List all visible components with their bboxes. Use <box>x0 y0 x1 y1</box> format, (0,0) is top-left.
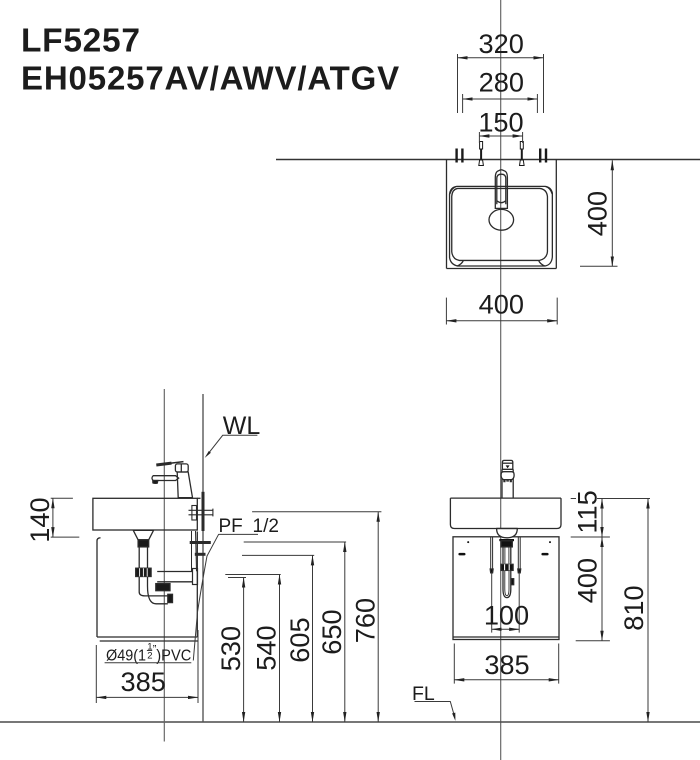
dim 530 line <box>243 578 245 722</box>
dim 115/810 top extension <box>571 498 576 500</box>
svg-text:810: 810 <box>618 585 649 630</box>
dim 140 line <box>52 498 54 537</box>
front basin <box>450 498 561 528</box>
front faucet cap V mark <box>506 465 510 468</box>
front hose left tip <box>490 569 493 573</box>
dim 100 extension left <box>491 573 493 633</box>
dim 760 extension top <box>252 511 381 513</box>
plan bowl outer rim <box>450 186 553 266</box>
plan sink outer rim left edge <box>446 160 448 269</box>
dim 605 line <box>312 555 314 721</box>
FL leader <box>415 702 455 718</box>
dim 400 plan right extension bottom <box>580 265 618 267</box>
side drain flange under basin <box>133 530 153 539</box>
side cabinet back edge <box>196 532 198 638</box>
plan bowl corner facet top-right <box>546 187 553 195</box>
front cabinet bottom inner line <box>453 636 559 638</box>
side supply pipe PF1/2 <box>189 509 214 511</box>
FL leader arrowhead <box>452 713 455 721</box>
plan faucet body outline <box>495 170 507 209</box>
front basin top edge <box>450 497 561 499</box>
front door hinge dot left <box>467 541 469 543</box>
side basin block <box>93 498 197 530</box>
side wall bracket bolt upper <box>190 541 211 544</box>
svg-text:140: 140 <box>24 497 55 542</box>
side faucet head <box>175 464 188 472</box>
front coupling nut <box>501 564 513 570</box>
centerline of side view <box>163 389 165 742</box>
side trap arm wall flange <box>193 569 198 585</box>
svg-text:385: 385 <box>121 666 166 697</box>
front drain fitting black <box>499 539 514 541</box>
front faucet body <box>502 469 513 498</box>
side cabinet bottom <box>97 636 197 638</box>
svg-text:115: 115 <box>572 490 603 533</box>
dim 140 extension bottom <box>51 536 80 538</box>
dim 385 front line <box>454 679 558 681</box>
dim 540 line <box>279 575 281 722</box>
side faucet lever <box>157 462 184 465</box>
front supply hose right <box>518 537 520 569</box>
plan bowl corner facet top-left <box>450 187 457 195</box>
plan bowl inner rim <box>452 188 548 260</box>
front faucet lever knob <box>501 472 514 480</box>
side trap arm to wall <box>157 572 192 582</box>
floor line FL <box>0 721 700 723</box>
svg-text:760: 760 <box>350 598 381 643</box>
plan drain circle <box>489 209 514 230</box>
front faucet knob base dark band <box>503 480 512 483</box>
front tailpipe upper <box>503 547 511 564</box>
svg-text:LF5257: LF5257 <box>21 23 141 60</box>
svg-text:)PVC: )PVC <box>156 647 191 664</box>
svg-text:EH05257AV/AWV/ATGV: EH05257AV/AWV/ATGV <box>21 60 400 97</box>
svg-text:PF: PF <box>219 516 243 537</box>
front pipe lower with U bottom <box>503 570 511 597</box>
side cabinet bottom lower line <box>100 640 198 642</box>
front faucet top cap <box>502 460 512 469</box>
front drain bulge <box>497 529 518 538</box>
front hose right tip <box>518 569 521 573</box>
front door handle right <box>541 553 548 556</box>
side supply flange <box>192 506 197 521</box>
plan wall fixing ticks left pair <box>455 149 457 163</box>
side faucet spout lip <box>153 481 158 484</box>
side lower pipe with elbow <box>139 577 168 604</box>
dim 320 line <box>458 57 544 59</box>
dim 280 extension right <box>536 94 538 113</box>
side wall line vertical <box>202 394 204 721</box>
front pipe inner line <box>505 570 509 595</box>
svg-text:385: 385 <box>484 649 529 680</box>
svg-text:320: 320 <box>479 28 524 59</box>
side faucet body <box>177 472 192 498</box>
side wall bracket bolt lower <box>195 553 206 556</box>
svg-text:400: 400 <box>572 558 603 603</box>
wall line (plan view, horizontal) <box>276 159 700 161</box>
dim 150 extension right <box>522 132 524 143</box>
dim 150 extension left <box>478 132 480 143</box>
front trap side tab <box>511 579 514 585</box>
dim 115 line <box>601 499 603 538</box>
PVC pipe label <box>105 641 192 664</box>
svg-text:2: 2 <box>147 650 152 661</box>
dim 280 extension left <box>462 94 464 113</box>
dim 400 plan bottom extension left <box>445 298 447 325</box>
dim 605 extension top <box>242 554 314 556</box>
PF leader underline <box>219 533 259 535</box>
side coupling nut <box>136 568 151 576</box>
svg-text:650: 650 <box>316 609 347 654</box>
dim 150 line <box>479 135 522 137</box>
dim 810 line <box>647 499 649 722</box>
side riser nut <box>156 584 170 591</box>
dim 760 line <box>377 512 379 722</box>
svg-text:1/2: 1/2 <box>253 516 279 537</box>
dim 385 front extension right <box>558 644 560 684</box>
dim 115 mid extension <box>571 536 610 538</box>
side faucet lever grip bold <box>156 463 171 465</box>
dim 385 front extension left <box>453 644 455 684</box>
svg-text:280: 280 <box>479 67 524 98</box>
WL leader arrowhead <box>205 451 211 458</box>
dim 400 front line <box>601 537 603 641</box>
PVC label underline <box>105 662 192 664</box>
plan faucet hole bolt left <box>479 142 484 166</box>
dim 385 side extension right <box>197 630 199 703</box>
front door handle left <box>458 553 465 556</box>
svg-text:400: 400 <box>582 191 613 236</box>
plan faucet hole bolt right <box>520 142 525 166</box>
dim 530 extension top <box>228 577 246 579</box>
WL leader <box>207 435 257 455</box>
front supply hose left <box>491 537 493 569</box>
svg-text:400: 400 <box>479 289 524 320</box>
side faucet head divider <box>180 464 182 472</box>
svg-text:100: 100 <box>484 600 529 631</box>
dim 320 extension right <box>543 54 545 113</box>
dim 400 plan right line <box>611 160 613 266</box>
plan faucet lever <box>497 174 506 204</box>
plan bowl corner facet bottom-left <box>457 260 463 266</box>
svg-text:150: 150 <box>478 106 523 137</box>
side drain nut bold <box>138 540 149 547</box>
dim 650 line <box>344 542 346 722</box>
leader curve from PF to PVC label <box>193 534 218 660</box>
plan sink outer rim right edge <box>555 160 557 269</box>
plan wall fixing ticks right pair <box>539 149 541 163</box>
svg-text:530: 530 <box>215 626 246 671</box>
dim 400 front bottom extension <box>576 640 610 642</box>
dim 400 plan bottom line <box>446 320 557 322</box>
dim 385 side extension left <box>95 645 97 703</box>
dim 400 plan bottom extension right <box>556 298 558 325</box>
dim 385 side line <box>96 696 198 698</box>
dim 140 extension top <box>51 497 73 499</box>
svg-text:Ø49(1: Ø49(1 <box>106 647 146 664</box>
plan bowl corner facet bottom-right <box>539 260 545 266</box>
side small fitting at pipe end <box>168 594 173 602</box>
dim 650 extension top <box>244 541 346 543</box>
side tailpipe <box>139 547 147 568</box>
side wall line thick segment <box>202 492 205 531</box>
dim 100 extension right <box>518 573 520 633</box>
dim 540 extension top <box>225 574 280 576</box>
svg-text:605: 605 <box>284 617 315 662</box>
front cabinet <box>453 537 559 640</box>
front door hinge dot right <box>549 541 551 543</box>
centerline of plan and front views <box>500 0 502 760</box>
side wall bracket outline <box>192 531 197 571</box>
dim 100 line <box>492 628 520 630</box>
dim 320 extension left <box>457 54 459 113</box>
svg-text:540: 540 <box>251 625 282 670</box>
side cabinet front edge <box>97 538 101 637</box>
dim 280 line <box>463 98 538 100</box>
plan sink outer rim front edge <box>447 268 557 270</box>
side faucet spout <box>152 476 179 481</box>
